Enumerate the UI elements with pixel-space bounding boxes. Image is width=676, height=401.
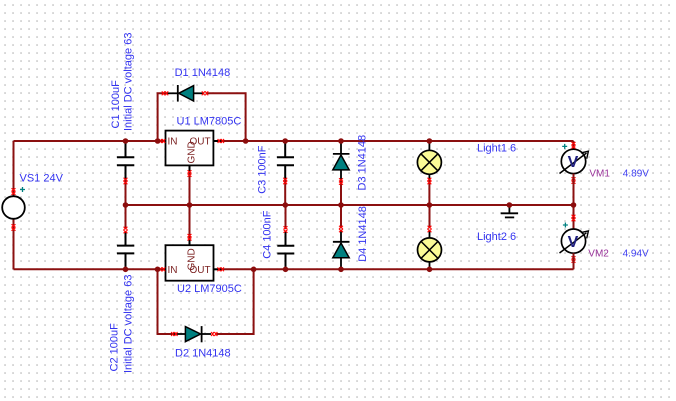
U2 GND lead	[189, 239, 191, 245]
svg-text:D4 1N4148: D4 1N4148	[357, 206, 369, 262]
voltmeter VM2	[561, 229, 585, 253]
voltmeter VM1	[561, 149, 585, 173]
diode D3	[340, 142, 342, 154]
svg-text:D3 1N4148: D3 1N4148	[357, 135, 369, 191]
svg-text:GND: GND	[187, 248, 198, 270]
wire	[14, 140, 166, 142]
wire	[573, 205, 575, 229]
svg-text:IN: IN	[168, 137, 178, 148]
capacitor C2	[125, 231, 127, 246]
U1 IN pin ticks	[159, 139, 165, 143]
svg-text:VM2: VM2	[588, 248, 609, 259]
diode D2	[171, 333, 185, 335]
ground	[508, 205, 510, 213]
wire	[573, 141, 575, 149]
D3 pin ticks	[339, 178, 343, 184]
svg-text:C1 100uF: C1 100uF	[110, 80, 122, 129]
svg-text:Light2 6: Light2 6	[477, 231, 516, 243]
svg-text:D2 1N4148: D2 1N4148	[175, 348, 231, 360]
capacitor C4	[285, 231, 287, 246]
svg-text:C2 100uF: C2 100uF	[109, 323, 121, 372]
wire	[216, 269, 254, 334]
regulator U2 box	[166, 245, 214, 281]
wire	[14, 268, 166, 270]
wire	[206, 93, 246, 141]
wire	[126, 204, 574, 206]
diode D4	[340, 231, 342, 242]
lamp Light1	[428, 142, 430, 151]
wire	[125, 205, 127, 229]
regulator U1 box	[166, 131, 214, 166]
VM1 pin ticks	[572, 142, 576, 148]
C2 pin ticks	[124, 227, 128, 233]
U2 OUT pin ticks	[218, 267, 224, 271]
Light1 pin ticks	[427, 178, 431, 184]
lamp Light2	[429, 231, 431, 238]
wire	[125, 179, 127, 205]
svg-text:C3 100nF: C3 100nF	[257, 145, 269, 194]
svg-text:U2 LM7905C: U2 LM7905C	[177, 283, 242, 295]
D4 pin ticks	[339, 226, 343, 232]
D1 pin ticks	[162, 91, 168, 95]
wire	[158, 269, 172, 334]
U1 GND pin ticks	[188, 170, 192, 176]
svg-text:Initial DC voltage 63: Initial DC voltage 63	[122, 33, 134, 131]
wire	[340, 179, 342, 205]
svg-text:4.89V: 4.89V	[623, 169, 649, 180]
wire	[285, 205, 287, 229]
diode D1	[166, 92, 178, 94]
VS1 plus sign	[20, 187, 25, 192]
capacitor C1	[125, 142, 127, 157]
VM1 plus sign	[562, 144, 567, 149]
svg-text:D1 1N4148: D1 1N4148	[175, 67, 231, 79]
wire	[340, 205, 342, 227]
svg-text:GND: GND	[187, 141, 198, 163]
VS1 pin ticks	[12, 188, 16, 194]
voltage source VS1	[2, 196, 25, 219]
wire	[573, 253, 575, 269]
U1 OUT pin ticks	[218, 139, 224, 143]
svg-text:C4 100nF: C4 100nF	[262, 210, 274, 259]
svg-text:V: V	[568, 234, 579, 251]
C4 pin ticks	[284, 226, 288, 232]
U1 OUT pin stub	[213, 140, 222, 142]
wire	[219, 268, 574, 270]
svg-text:VM1: VM1	[589, 169, 610, 180]
svg-text:Initial DC voltage 63: Initial DC voltage 63	[122, 275, 134, 373]
U2 OUT pin stub	[214, 268, 223, 270]
svg-text:U1 LM7805C: U1 LM7805C	[177, 115, 242, 127]
wire	[189, 172, 191, 206]
wire	[13, 219, 15, 269]
wire	[573, 174, 575, 205]
D2 pin ticks	[171, 332, 177, 336]
svg-text:IN: IN	[168, 265, 178, 276]
wire	[429, 205, 431, 227]
svg-text:VS1 24V: VS1 24V	[20, 173, 64, 185]
U2 IN pin ticks	[159, 267, 165, 271]
wire	[428, 179, 430, 205]
svg-text:4.94V: 4.94V	[623, 248, 649, 259]
wire	[219, 140, 574, 142]
C1 pin ticks	[124, 178, 128, 184]
junction dots	[123, 138, 129, 144]
wire	[13, 141, 15, 196]
VM2 plus sign	[563, 223, 568, 228]
capacitor C3	[284, 142, 286, 157]
U1 GND lead	[189, 165, 191, 171]
U2 GND pin ticks	[188, 234, 192, 240]
svg-text:Light1 6: Light1 6	[477, 143, 516, 155]
VM2 pin ticks	[572, 215, 576, 221]
wire	[284, 179, 286, 205]
C3 pin ticks	[283, 178, 287, 184]
wire	[158, 93, 166, 141]
Light2 pin ticks	[428, 226, 432, 232]
wire	[189, 205, 191, 239]
svg-text:V: V	[568, 154, 579, 171]
